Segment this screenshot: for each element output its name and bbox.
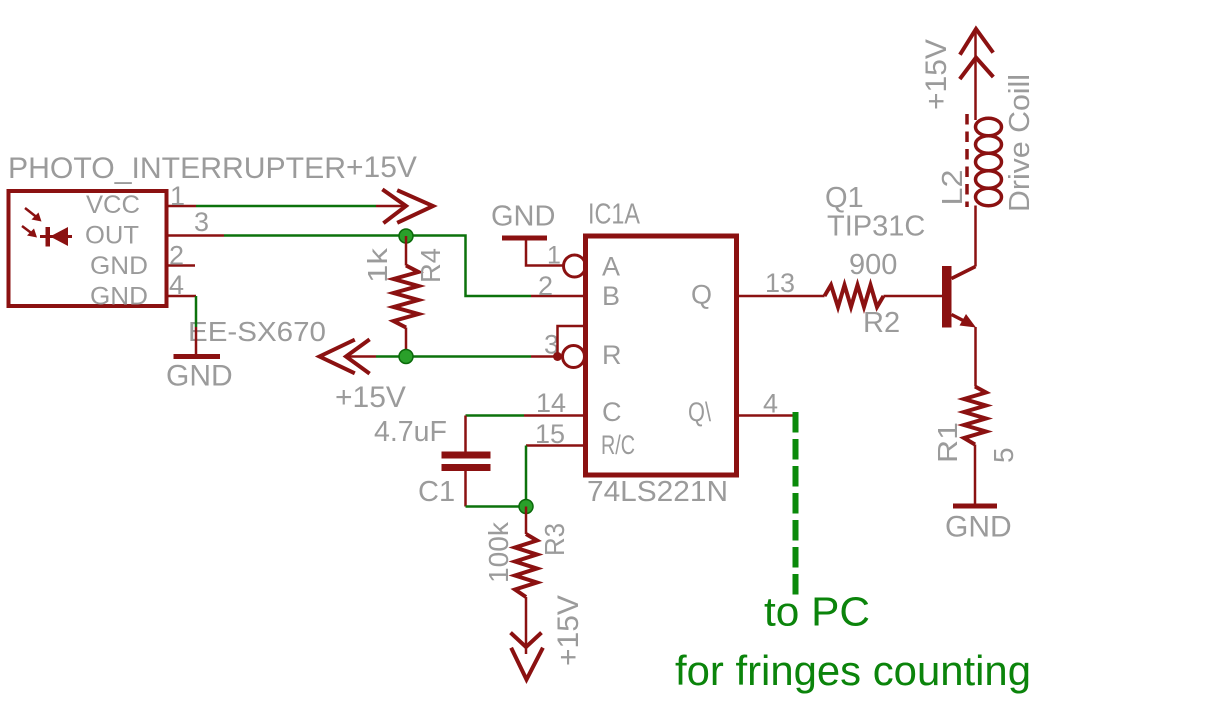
pin 13 wire from Q	[738, 295, 825, 298]
junction node C1/R3	[519, 500, 533, 514]
svg-text:R3: R3	[539, 523, 570, 556]
svg-text:2: 2	[169, 241, 184, 271]
pin 14 wire into C	[524, 414, 585, 417]
wire L2 top	[974, 30, 977, 120]
svg-text:A: A	[602, 252, 620, 282]
inductor L2	[976, 118, 1002, 206]
svg-text:100k: 100k	[483, 521, 514, 583]
photo interrupter U$1 box	[9, 191, 167, 306]
svg-text:C1: C1	[418, 476, 455, 508]
photodiode symbol inside photo interrupter	[22, 208, 72, 247]
svg-text:1k: 1k	[362, 247, 393, 283]
svg-text:4.7uF: 4.7uF	[374, 416, 447, 448]
+15V supply arrow left	[320, 341, 369, 373]
junction dot pin 3	[553, 352, 562, 361]
svg-text:+15V: +15V	[920, 39, 953, 110]
wire pin4 down	[195, 296, 198, 327]
svg-text:R1: R1	[932, 422, 963, 463]
svg-text:13: 13	[765, 268, 795, 298]
junction node OUT/R4	[399, 229, 413, 243]
pin 15 wire into R/C	[526, 444, 585, 447]
svg-text:+15V: +15V	[346, 151, 417, 184]
svg-text:4: 4	[763, 389, 778, 419]
pin 3 stub	[166, 234, 224, 237]
svg-text:15: 15	[535, 419, 565, 449]
svg-text:R: R	[602, 340, 622, 370]
svg-text:5: 5	[988, 447, 1019, 463]
svg-text:+15V: +15V	[552, 595, 585, 666]
svg-text:to PC: to PC	[764, 589, 870, 635]
svg-text:C: C	[602, 397, 622, 427]
svg-text:+15V: +15V	[335, 381, 406, 414]
svg-text:1: 1	[170, 181, 185, 211]
svg-text:IC1A: IC1A	[588, 199, 641, 231]
wire stub at +15V arrow	[376, 205, 405, 208]
svg-text:B: B	[602, 281, 620, 311]
svg-text:VCC: VCC	[86, 191, 140, 219]
svg-text:L2: L2	[937, 170, 969, 206]
wire loop pin 3	[558, 326, 586, 357]
wire GND to pin 1	[526, 240, 563, 266]
resistor R2	[825, 285, 884, 307]
svg-text:GND: GND	[90, 283, 148, 311]
IC1A box 74LS221N	[586, 236, 737, 475]
pin 4 stub	[166, 295, 196, 298]
+15V supply arrow down	[512, 634, 542, 680]
resistor R1	[964, 387, 986, 445]
wire R4 bottom net	[376, 355, 531, 358]
L2 core dashed line	[965, 114, 969, 207]
pin 4 wire from Q\	[738, 414, 795, 417]
pin 1 bubble	[564, 255, 586, 277]
pin 3 bubble	[563, 346, 585, 368]
svg-text:900: 900	[849, 249, 897, 281]
+15V supply arrow up	[961, 29, 992, 78]
svg-text:Drive Coill: Drive Coill	[1004, 74, 1036, 212]
pin 3 wire into R	[531, 355, 562, 358]
junction node R4/+15V	[399, 350, 413, 364]
to PC dashed wire	[793, 412, 799, 600]
svg-text:Q1: Q1	[825, 182, 864, 214]
svg-text:1: 1	[547, 242, 561, 270]
wire into ground	[195, 327, 198, 354]
transistor Q1	[942, 266, 952, 328]
svg-text:Q: Q	[691, 280, 712, 310]
svg-text:GND: GND	[90, 252, 148, 280]
svg-text:GND: GND	[945, 511, 1012, 544]
wire C1 bottom	[466, 505, 527, 508]
svg-text:4: 4	[169, 270, 184, 300]
svg-text:R/C: R/C	[601, 430, 635, 460]
svg-text:3: 3	[194, 207, 209, 237]
svg-text:EE-SX670: EE-SX670	[188, 316, 326, 347]
ground symbol at IC pin 1	[502, 236, 547, 241]
svg-text:R2: R2	[863, 307, 900, 339]
+15V supply arrow right	[384, 191, 433, 223]
svg-text:GND: GND	[166, 360, 233, 393]
capacitor C1	[464, 416, 467, 453]
pin 1 stub	[166, 205, 196, 208]
svg-text:14: 14	[536, 388, 566, 418]
pin 2 stub	[166, 264, 195, 267]
pin 2 wire into B	[531, 295, 585, 298]
svg-text:R4: R4	[415, 248, 446, 283]
svg-text:74LS221N: 74LS221N	[587, 476, 728, 508]
svg-text:for fringes counting: for fringes counting	[675, 647, 1031, 694]
ground symbol right	[953, 504, 997, 509]
svg-text:OUT: OUT	[85, 222, 139, 250]
svg-text:TIP31C: TIP31C	[827, 211, 925, 243]
svg-text:Q\: Q\	[688, 397, 711, 427]
resistor R4	[405, 236, 408, 266]
resistor R3	[525, 507, 528, 535]
wire OUT to IC pin B	[224, 236, 531, 297]
svg-text:2: 2	[538, 271, 553, 301]
svg-text:GND: GND	[491, 201, 555, 233]
wire VCC to +15V	[196, 205, 376, 208]
ground symbol left	[174, 354, 221, 359]
